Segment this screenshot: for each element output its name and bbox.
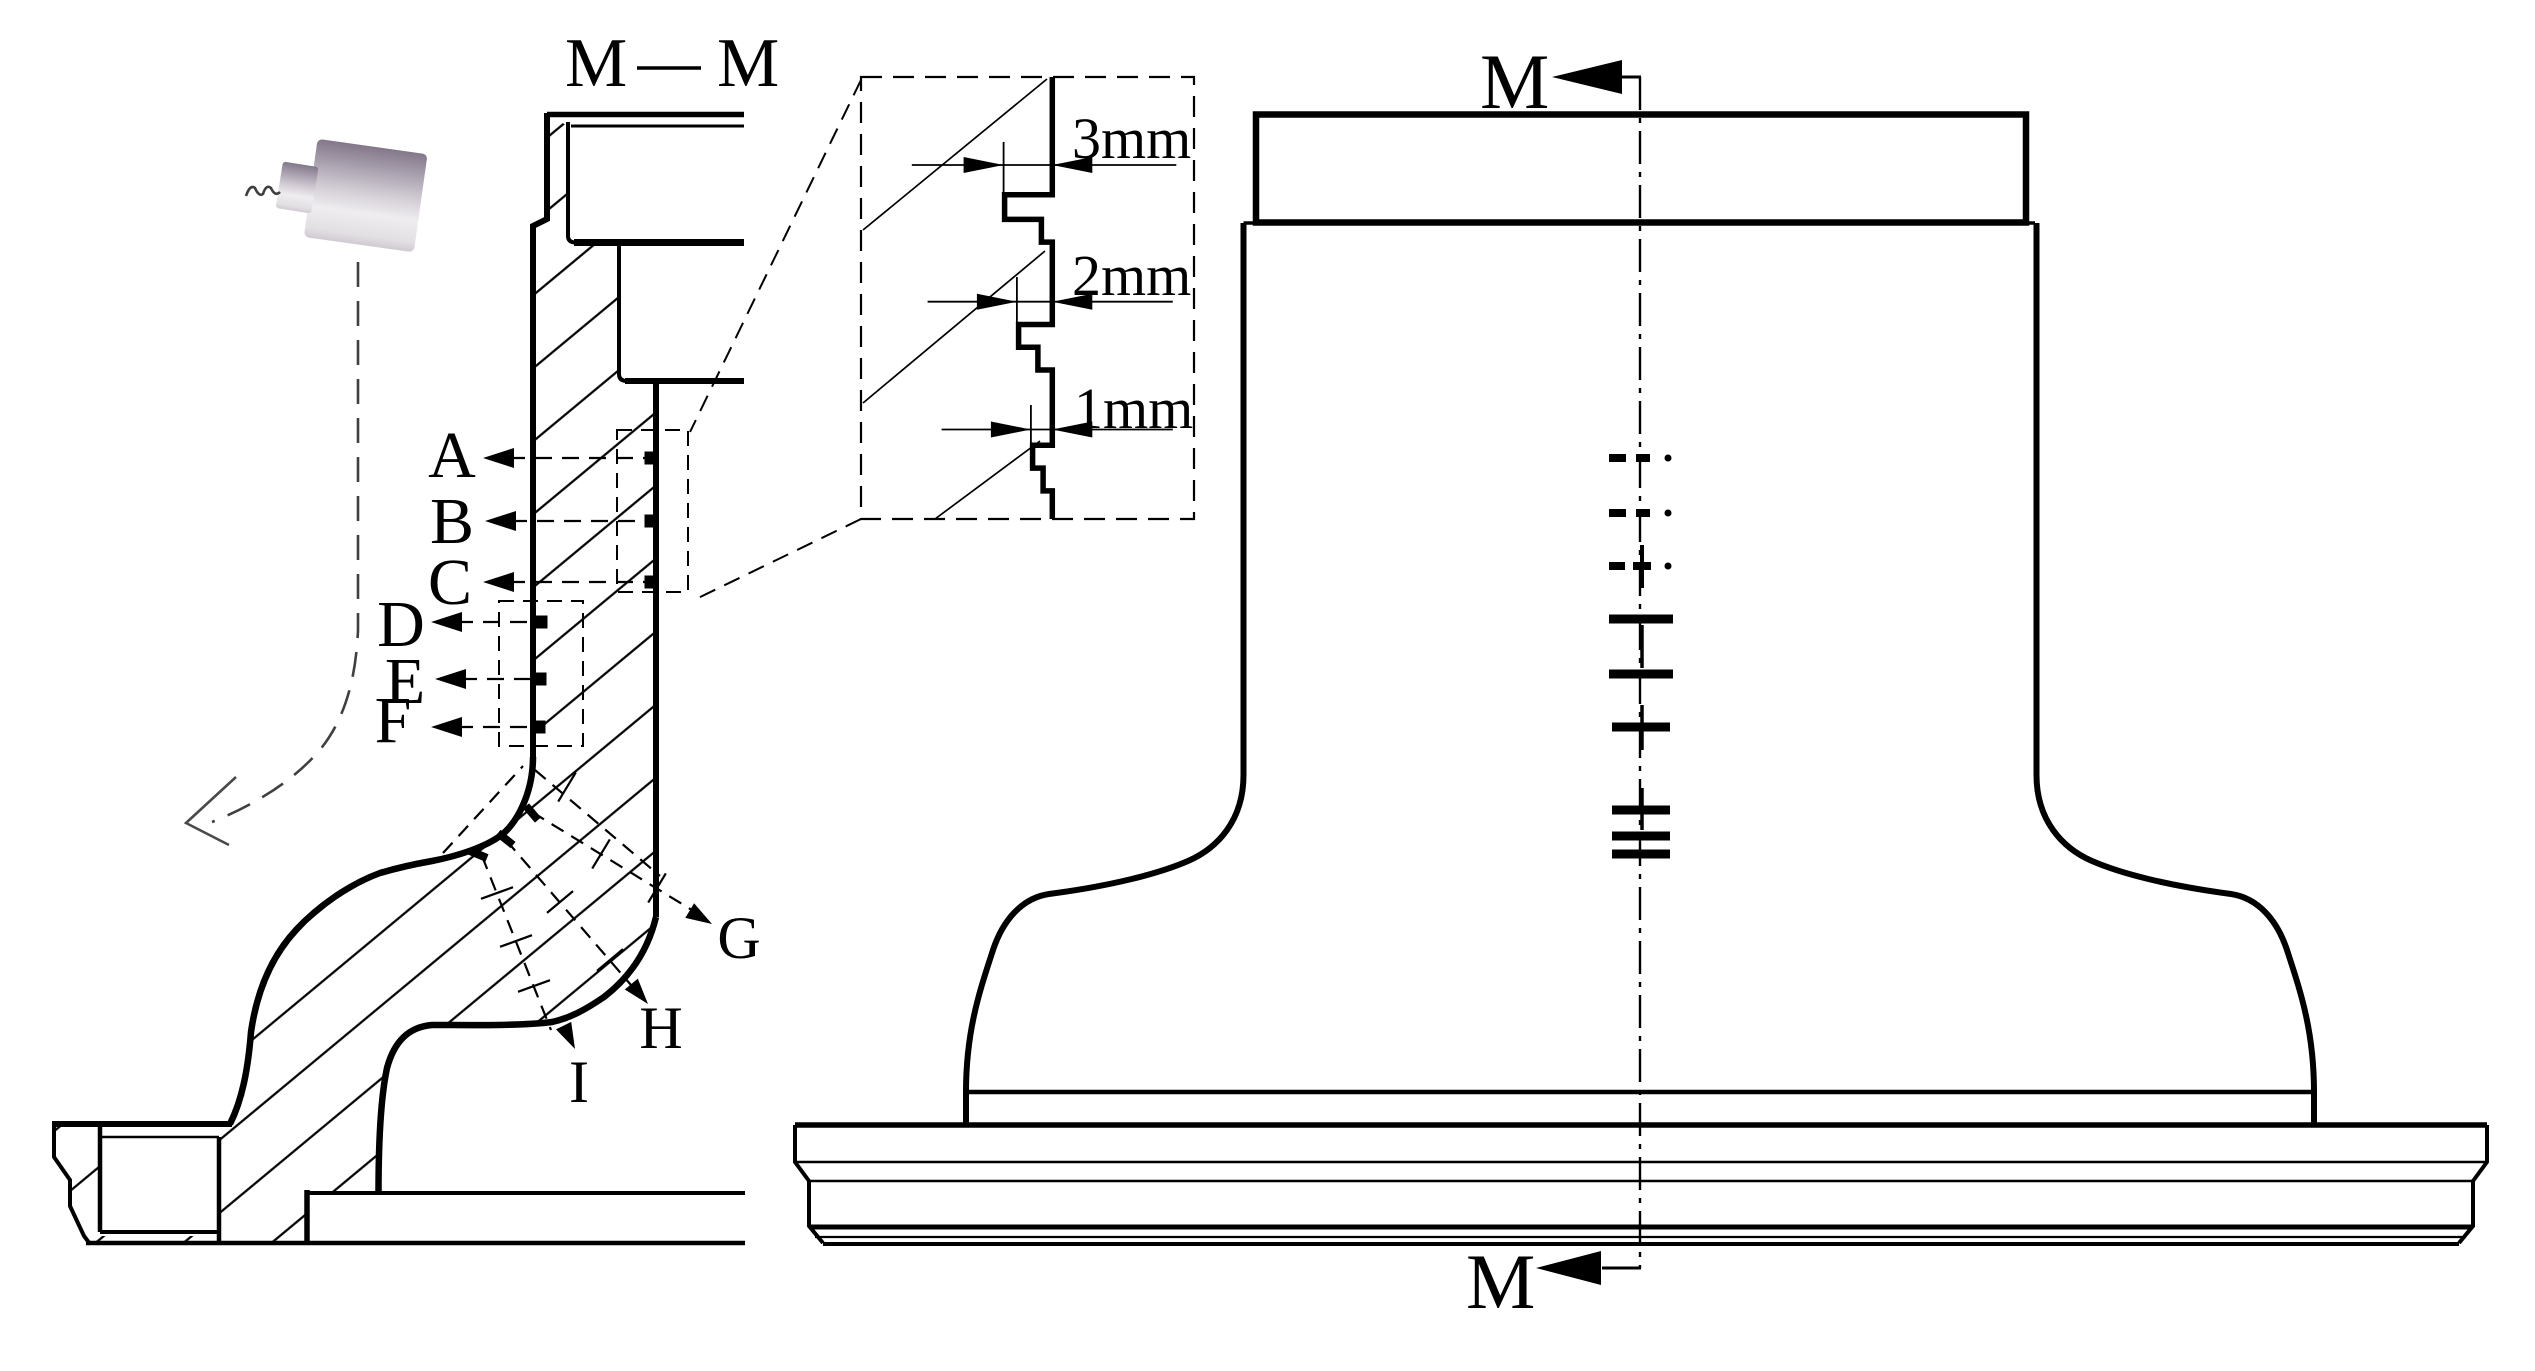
svg-text:G: G bbox=[717, 905, 760, 971]
svg-text:1mm: 1mm bbox=[1074, 376, 1193, 441]
svg-text:H: H bbox=[639, 995, 682, 1061]
svg-text:M: M bbox=[565, 25, 627, 102]
svg-text:C: C bbox=[428, 546, 472, 619]
svg-text:M: M bbox=[1466, 1238, 1535, 1325]
svg-text:3mm: 3mm bbox=[1072, 106, 1191, 171]
svg-text:2mm: 2mm bbox=[1072, 243, 1191, 308]
svg-text:A: A bbox=[428, 419, 476, 492]
svg-text:M: M bbox=[717, 25, 779, 102]
svg-text:M: M bbox=[1480, 38, 1549, 125]
svg-text:I: I bbox=[569, 1049, 589, 1115]
svg-text:F: F bbox=[375, 684, 412, 757]
